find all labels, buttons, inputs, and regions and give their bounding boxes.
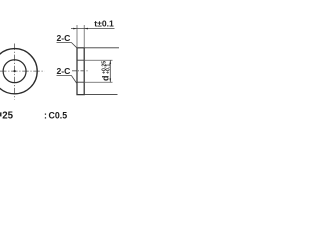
t dimension line [71, 28, 115, 30]
svg-text:d: d [101, 76, 111, 82]
section view: horizontal axis center line [72, 70, 89, 72]
t dimension extension line (right) [83, 25, 85, 47]
svg-text:2-C: 2-C [57, 66, 71, 76]
hole dimension arrow down [110, 78, 112, 82]
hole diameter label d (rotated, with tolerance digits) [101, 61, 112, 81]
t dimension arrow left [73, 28, 77, 30]
washer front view: outer circle [0, 49, 37, 94]
center dot [14, 70, 16, 72]
svg-text:2-C: 2-C [57, 33, 71, 43]
leader line 2-C top [57, 43, 78, 49]
svg-text:+0.1: +0.1 [106, 64, 112, 74]
section view: outline rectangle [77, 48, 84, 95]
svg-text:C0.5: C0.5 [49, 110, 68, 120]
svg-text::: : [44, 110, 47, 120]
section view: hole edge line (upper) [77, 59, 84, 61]
washer front view: inner hole circle [3, 60, 26, 83]
hole dimension arrow up [110, 60, 112, 64]
outer edge extension line (bottom, to cut-off dimension) [77, 94, 118, 96]
washer front view: vertical center line [14, 44, 16, 100]
svg-text:t±0.1: t±0.1 [94, 19, 114, 29]
hole dim extension line (lower) [85, 81, 113, 83]
hole dim extension line (upper) [85, 59, 113, 61]
t dimension arrow right [84, 28, 88, 30]
section view: hole edge line (lower) [77, 81, 84, 83]
outer edge extension line (top, to cut-off dimension) [84, 47, 119, 49]
hole diameter dimension line [109, 60, 111, 82]
t dimension extension line (left) [76, 25, 78, 47]
leader line 2-C bottom [57, 76, 78, 84]
bottom note: cut-off '=' mark at left edge [0, 112, 2, 116]
washer front view: horizontal center line [0, 70, 45, 72]
svg-text:25: 25 [2, 110, 13, 121]
